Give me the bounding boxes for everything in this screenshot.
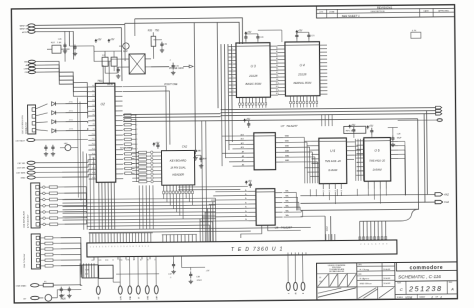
svg-text:U12: U12 — [60, 295, 65, 297]
svg-text:U 3: U 3 — [251, 64, 256, 68]
capacitor C14 C15 — [45, 145, 47, 147]
svg-text:8: 8 — [111, 246, 112, 248]
svg-text:LTR: LTR — [319, 12, 323, 14]
svg-text:P14: P14 — [92, 153, 95, 155]
svg-text:+5V: +5V — [247, 180, 252, 183]
svg-text:HEADER: HEADER — [172, 173, 184, 177]
svg-text:9: 9 — [142, 246, 143, 248]
wire U7 inputs — [222, 135, 246, 137]
svg-text:K0: K0 — [135, 153, 137, 155]
svg-text:A11: A11 — [276, 85, 279, 88]
power +5V keyboard — [153, 143, 155, 146]
svg-text:REVISIONS: REVISIONS — [377, 5, 392, 9]
svg-text:3: 3 — [364, 244, 365, 246]
capacitor C37 — [172, 256, 174, 261]
wire serial staircase — [64, 187, 86, 200]
svg-text:CVB: CVB — [98, 260, 101, 262]
inductor L4 — [102, 57, 108, 66]
dram U6 4416 — [364, 138, 391, 182]
resistors serial lines — [39, 186, 42, 188]
power +5V mod — [95, 39, 97, 42]
wire horizontal net 205 — [300, 202, 424, 203]
rom U4 23128 KERNAL — [285, 42, 320, 96]
ted U1 7360 — [87, 240, 397, 257]
svg-text:2.2: 2.2 — [85, 273, 89, 275]
title block slash marks — [358, 288, 376, 299]
resistor pack keyboard — [138, 151, 146, 153]
wire U7 input bus verticals — [221, 110, 224, 166]
svg-text:P12: P12 — [92, 143, 95, 145]
ted top pin comb left — [89, 233, 91, 242]
svg-text:A4: A4 — [276, 61, 278, 64]
wire curve to comb — [360, 209, 419, 221]
svg-text:ENG Wilson: ENG Wilson — [360, 283, 373, 285]
svg-text:D-RAM: D-RAM — [373, 168, 383, 172]
svg-text:SCHEMATIC , C-116: SCHEMATIC , C-116 — [398, 274, 441, 279]
svg-text:D4: D4 — [231, 62, 233, 64]
svg-text:D2: D2 — [231, 83, 233, 85]
svg-text:JOY3: JOY3 — [69, 129, 73, 131]
svg-text:C37: C37 — [168, 274, 173, 276]
svg-text:U 6: U 6 — [374, 149, 379, 153]
inductor L5 — [111, 57, 117, 66]
capacitor C20 +5V U3 — [245, 32, 247, 35]
svg-text:2: 2 — [120, 246, 121, 248]
svg-text:K0: K0 — [135, 115, 137, 117]
svg-text:5: 5 — [102, 246, 103, 248]
revisions table — [316, 5, 454, 18]
svg-text:RF: RF — [98, 296, 100, 299]
svg-text:7805: 7805 — [60, 299, 66, 301]
capacitor C24 U5 — [349, 125, 351, 128]
svg-text:U 5: U 5 — [330, 149, 335, 153]
svg-text:D1: D1 — [231, 80, 233, 82]
wire bus right bends — [427, 111, 435, 195]
svg-text:D5: D5 — [231, 66, 233, 68]
capacitor C31 — [172, 63, 174, 66]
svg-text:C28: C28 — [397, 133, 402, 135]
transistor HA2 — [65, 145, 71, 151]
svg-text:A10: A10 — [241, 146, 244, 149]
svg-text:D6: D6 — [231, 69, 233, 71]
svg-text:K3: K3 — [135, 129, 137, 131]
svg-text:5V: 5V — [112, 259, 115, 261]
dram U5 bottom pins — [322, 184, 324, 189]
wire staircase video to U2 — [35, 61, 45, 63]
connector pins bottom mid — [286, 282, 290, 290]
svg-text:2: 2 — [430, 295, 433, 299]
svg-text:10-4-83: 10-4-83 — [383, 277, 391, 280]
svg-text:R30: R30 — [148, 30, 153, 32]
connector pins bottom left — [96, 286, 100, 294]
svg-text:P8: P8 — [93, 124, 95, 126]
title block names section — [357, 265, 395, 267]
capacitor C23 U8 — [245, 181, 247, 184]
wire U8 bottom bends — [241, 225, 262, 238]
svg-text:K5: K5 — [135, 139, 137, 141]
svg-text:D-RAM: D-RAM — [328, 168, 338, 172]
svg-text:RF: RF — [133, 259, 135, 261]
svg-text:D3: D3 — [231, 87, 233, 89]
svg-text:D7: D7 — [231, 73, 233, 75]
wire matrix drops to TED — [214, 198, 216, 241]
svg-text:P10: P10 — [92, 134, 95, 136]
svg-text:P1: P1 — [92, 90, 94, 92]
capacitor C35 C36 — [60, 287, 62, 289]
svg-text:23128: 23128 — [248, 74, 258, 78]
connector CN7 joystick — [28, 105, 36, 134]
svg-text:GT: GT — [23, 299, 27, 301]
svg-text:R27: R27 — [51, 42, 56, 44]
svg-text:2: 2 — [148, 246, 149, 248]
dram U6 bottom pins — [367, 181, 369, 188]
svg-text:ACDT: ACDT — [21, 31, 28, 34]
svg-text:C30: C30 — [163, 44, 168, 46]
svg-text:4: 4 — [99, 246, 100, 248]
svg-text:PHONE JACK: PHONE JACK — [169, 67, 184, 70]
svg-text:FEMALE DIN: FEMALE DIN — [25, 121, 28, 134]
svg-text:A8: A8 — [242, 155, 244, 158]
svg-text:1: 1 — [90, 246, 91, 248]
svg-text:P0: P0 — [92, 85, 94, 87]
capacitor C38 branch — [182, 256, 205, 268]
svg-text:CHR: CHR — [156, 295, 158, 300]
svg-text:B2: B2 — [147, 259, 149, 261]
svg-text:CST SEN: CST SEN — [16, 173, 26, 175]
wire A14 A15 lines — [178, 185, 247, 188]
svg-text:C26: C26 — [58, 39, 63, 41]
svg-text:X: X — [288, 292, 290, 294]
svg-text:HA2: HA2 — [64, 142, 68, 145]
diode gates joystick — [36, 104, 48, 109]
svg-text:C20: C20 — [260, 37, 265, 39]
svg-text:4: 4 — [368, 244, 369, 246]
svg-text:D0: D0 — [231, 48, 233, 50]
wire video net — [70, 45, 94, 47]
svg-text:D4: D4 — [231, 90, 233, 92]
svg-text:JOY0: JOY0 — [68, 102, 72, 104]
svg-text:CA2: CA2 — [444, 201, 449, 204]
capacitor C28 right — [392, 128, 394, 136]
svg-text:7501: 7501 — [97, 80, 103, 83]
svg-text:U2: U2 — [100, 102, 104, 106]
title block frame — [317, 262, 458, 300]
title block corner slashes — [318, 274, 329, 286]
svg-text:10-4-83: 10-4-83 — [383, 282, 391, 285]
svg-text:P2: P2 — [92, 95, 94, 97]
wire joystick to cpu — [66, 103, 88, 113]
svg-text:7: 7 — [136, 246, 137, 248]
svg-text:+5V: +5V — [110, 38, 115, 41]
svg-text:K2: K2 — [135, 124, 137, 126]
svg-text:AN2: AN2 — [443, 193, 449, 196]
wire main address bus — [221, 114, 436, 116]
svg-text:MEM 7D: MEM 7D — [20, 29, 29, 31]
transistor Q3 — [123, 43, 129, 49]
commodore logo — [396, 262, 457, 271]
svg-text:SCALE: SCALE — [397, 296, 404, 299]
svg-text:TMS 4416 -20: TMS 4416 -20 — [369, 160, 385, 163]
svg-text:3: 3 — [96, 246, 97, 248]
svg-text:A12: A12 — [241, 138, 244, 141]
connector CN5 user port — [31, 234, 40, 269]
svg-text:A2: A2 — [276, 54, 278, 57]
multiplexer U8 74LS257 — [256, 189, 275, 226]
svg-text:T E D 7360 U 1: T E D 7360 U 1 — [231, 247, 284, 254]
svg-text:KERNAL ROM: KERNAL ROM — [293, 81, 312, 85]
capacitor C27 — [74, 45, 76, 47]
wire comb to TED right — [359, 221, 361, 239]
svg-text:A9: A9 — [276, 78, 278, 81]
ted top pin comb mid — [162, 235, 164, 242]
svg-text:B: B — [303, 292, 305, 294]
svg-text:P6: P6 — [93, 114, 95, 116]
svg-text:P9: P9 — [93, 129, 95, 131]
svg-text:LUM: LUM — [120, 296, 122, 300]
svg-text:74LS257: 74LS257 — [286, 124, 298, 128]
svg-text:D5: D5 — [231, 94, 233, 96]
capacitor AB2 net — [194, 147, 196, 150]
svg-text:REV: REV — [449, 282, 453, 284]
ted top pins right — [325, 234, 327, 240]
svg-text:10-4-83: 10-4-83 — [383, 268, 391, 271]
svg-text:TMS 4416 -20: TMS 4416 -20 — [325, 160, 341, 163]
svg-text:B. Agnew: B. Agnew — [360, 277, 370, 280]
crystal Y2 oscillator box — [129, 54, 145, 74]
flag connector CAS — [435, 200, 443, 203]
svg-text:A12: A12 — [276, 89, 279, 92]
wire top bus lower — [125, 22, 240, 45]
svg-text:7: 7 — [379, 243, 380, 245]
svg-text:+5V: +5V — [97, 38, 102, 41]
svg-text:P7: P7 — [93, 119, 95, 121]
svg-text:.1: .1 — [170, 277, 173, 279]
resistor pack RP2 — [344, 126, 366, 133]
multiplexer U7 74LS257 — [254, 133, 276, 170]
flag connector SND — [435, 193, 443, 196]
svg-text:A9: A9 — [242, 150, 244, 153]
svg-text:18 PIN DUAL: 18 PIN DUAL — [170, 165, 186, 169]
svg-text:A8: A8 — [276, 75, 278, 78]
svg-text:P4: P4 — [92, 105, 94, 107]
wire 60hz pair — [324, 216, 326, 240]
svg-text:3: 3 — [123, 246, 124, 248]
svg-text:CN5 7 PIN DIN: CN5 7 PIN DIN — [24, 253, 26, 268]
wire net verticals from top — [194, 23, 195, 148]
svg-text:SND: SND — [105, 260, 109, 262]
svg-text:GND: GND — [21, 178, 26, 180]
svg-text:P3: P3 — [92, 100, 94, 102]
svg-text:+5V: +5V — [369, 125, 374, 128]
svg-text:1: 1 — [117, 246, 118, 248]
svg-text:CN4 SERIAL BUS: CN4 SERIAL BUS — [23, 210, 26, 228]
wire user staircase — [61, 238, 81, 262]
wire U6 input bundle — [354, 139, 356, 181]
svg-text:R. Chung: R. Chung — [360, 269, 370, 271]
svg-text:75Ω: 75Ω — [155, 30, 160, 32]
svg-text:JOY2: JOY2 — [69, 120, 73, 122]
svg-text:4: 4 — [127, 246, 128, 248]
svg-text:P5: P5 — [92, 110, 94, 112]
wire cassette staircase — [62, 159, 88, 162]
wire bottom rail — [116, 273, 159, 275]
rom U3 bottom comb — [238, 97, 240, 102]
svg-text:C38: C38 — [196, 276, 201, 278]
capacitor C21 +5V U4 — [296, 30, 298, 33]
drawing size box — [405, 281, 407, 294]
svg-text:A7: A7 — [276, 71, 278, 74]
svg-text:5V: 5V — [138, 296, 140, 299]
wire horizontal net 197 — [300, 194, 427, 195]
ted bottom stubs left — [93, 257, 95, 260]
wire loop top-left — [120, 28, 123, 81]
wire U8 inputs — [215, 190, 248, 192]
title block big slash box — [318, 288, 356, 297]
svg-text:.XX: .XX — [319, 277, 323, 279]
svg-text:F1: F1 — [44, 281, 47, 283]
svg-text:SHEET: SHEET — [419, 297, 426, 299]
svg-text:U 4: U 4 — [300, 63, 305, 67]
svg-text:commodore: commodore — [410, 265, 444, 271]
svg-text:+5V: +5V — [206, 270, 210, 272]
svg-text:5: 5 — [371, 244, 372, 246]
svg-text:A6: A6 — [276, 68, 278, 71]
wire keyboard matrix bus — [62, 198, 215, 199]
capacitor C26 — [64, 43, 66, 45]
svg-text:CST MOT: CST MOT — [16, 141, 26, 143]
svg-text:9: 9 — [114, 246, 115, 248]
svg-text:A0: A0 — [276, 47, 278, 50]
svg-text:U7: U7 — [281, 124, 285, 128]
wire cap link over gap — [258, 29, 282, 31]
svg-text:D3: D3 — [231, 59, 233, 61]
svg-text:NONE: NONE — [405, 296, 412, 299]
capacitor C25 U6 — [367, 126, 369, 129]
svg-text:P13: P13 — [92, 148, 95, 150]
capacitor C29 — [117, 67, 119, 69]
svg-text:SIZE: SIZE — [397, 283, 402, 285]
svg-text:U10: U10 — [123, 50, 128, 53]
capacitor C22 U7 — [244, 119, 246, 122]
rom U3 23128 BASIC — [236, 43, 271, 98]
svg-text:45: 45 — [296, 292, 298, 294]
svg-text:K7: K7 — [135, 149, 137, 151]
svg-text:DATE: DATE — [424, 10, 430, 13]
svg-text:A1: A1 — [276, 50, 278, 53]
svg-text:CN7 JOYSTK 8 PIN: CN7 JOYSTK 8 PIN — [22, 115, 24, 134]
svg-text:6: 6 — [105, 246, 106, 248]
svg-text:ZONE: ZONE — [329, 12, 335, 14]
wire U7 outputs MA — [283, 136, 304, 138]
svg-text:.1: .1 — [169, 60, 172, 62]
wire header top risers — [123, 86, 167, 151]
wire keyboard header comb — [163, 185, 165, 191]
connector CN4 serial — [31, 183, 40, 228]
svg-text:+5V: +5V — [351, 124, 356, 127]
rom U3 address bus — [220, 44, 223, 110]
svg-text:D2: D2 — [231, 55, 233, 57]
svg-text:A7: A7 — [242, 159, 244, 162]
svg-text:.1/50V: .1/50V — [196, 280, 202, 282]
wire stub drops u5 caps — [321, 115, 323, 126]
svg-text:KEY0 - KEY7: KEY0 - KEY7 — [120, 147, 134, 149]
svg-text:TOLERANCES ARE: TOLERANCES ARE — [329, 268, 345, 271]
svg-text:+5V: +5V — [155, 142, 160, 145]
svg-text:CST RD: CST RD — [17, 163, 25, 165]
wire U8 outputs — [283, 191, 296, 193]
svg-text:+5V: +5V — [246, 118, 251, 121]
svg-text:KEYBOARD: KEYBOARD — [170, 158, 188, 162]
svg-text:4.7K: 4.7K — [412, 30, 417, 32]
svg-text:C21: C21 — [311, 35, 316, 37]
wire phone jack net — [151, 66, 169, 68]
wire U2 bottom comb — [98, 182, 100, 229]
ted bottom pin ticks right — [287, 253, 289, 255]
svg-text:AB2: AB2 — [197, 149, 202, 152]
svg-text:CN6 9VAC: CN6 9VAC — [16, 285, 27, 288]
svg-text:CN2: CN2 — [182, 144, 188, 148]
wire RP1 to keyboard pack — [134, 115, 138, 153]
svg-text:A5: A5 — [276, 64, 278, 67]
filter box C35 — [99, 265, 114, 278]
wire U6 right — [398, 140, 405, 142]
rectifier CR1 — [45, 294, 52, 301]
svg-text:K4: K4 — [135, 134, 137, 136]
svg-text:2: 2 — [360, 244, 361, 246]
svg-text:5: 5 — [130, 246, 131, 248]
wire power loop — [57, 290, 81, 298]
wire U2 top risers — [102, 65, 104, 83]
svg-text:6: 6 — [375, 243, 376, 245]
svg-text:K3: K3 — [136, 168, 138, 170]
connector CN2 keyboard header — [161, 150, 194, 185]
wire left verticals — [64, 31, 66, 61]
svg-text:A13: A13 — [276, 92, 279, 95]
svg-text:A11: A11 — [241, 142, 244, 145]
svg-text:A13: A13 — [241, 133, 244, 136]
wire ram to bus drops — [309, 189, 311, 196]
svg-text:SND: SND — [130, 295, 132, 300]
svg-text:8: 8 — [383, 243, 384, 245]
svg-text:SEE SHEET 1: SEE SHEET 1 — [342, 14, 361, 18]
resistor pack RP1 — [124, 114, 131, 116]
filter box C34 — [82, 265, 98, 278]
svg-text:8: 8 — [139, 246, 140, 248]
svg-text:2: 2 — [93, 246, 94, 248]
svg-text:DESCRIPTION: DESCRIPTION — [371, 11, 385, 13]
svg-text:GND: GND — [119, 259, 123, 261]
resistor R5 4.7K — [411, 32, 421, 38]
wire U2 address bus right — [123, 113, 220, 116]
svg-text:A6: A6 — [242, 163, 244, 166]
connector pins bottom cluster — [118, 286, 122, 294]
dram U5 4416 — [319, 138, 347, 184]
svg-text:A: A — [450, 287, 454, 291]
svg-text:CST WR: CST WR — [17, 168, 26, 170]
svg-text:251238: 251238 — [408, 284, 443, 293]
wire main data bus — [221, 108, 436, 110]
wire osc nets — [103, 59, 122, 61]
wire mem-exp lines — [35, 23, 125, 26]
svg-text:9: 9 — [386, 243, 387, 245]
svg-text:A10: A10 — [276, 82, 279, 85]
svg-text:60HZ: 60HZ — [327, 225, 329, 231]
svg-text:LUM: LUM — [91, 260, 95, 262]
svg-text:APPROVED: APPROVED — [438, 9, 449, 12]
svg-text:GND: GND — [147, 295, 149, 300]
svg-text:A3: A3 — [276, 57, 278, 60]
fuse F1 — [43, 283, 53, 286]
